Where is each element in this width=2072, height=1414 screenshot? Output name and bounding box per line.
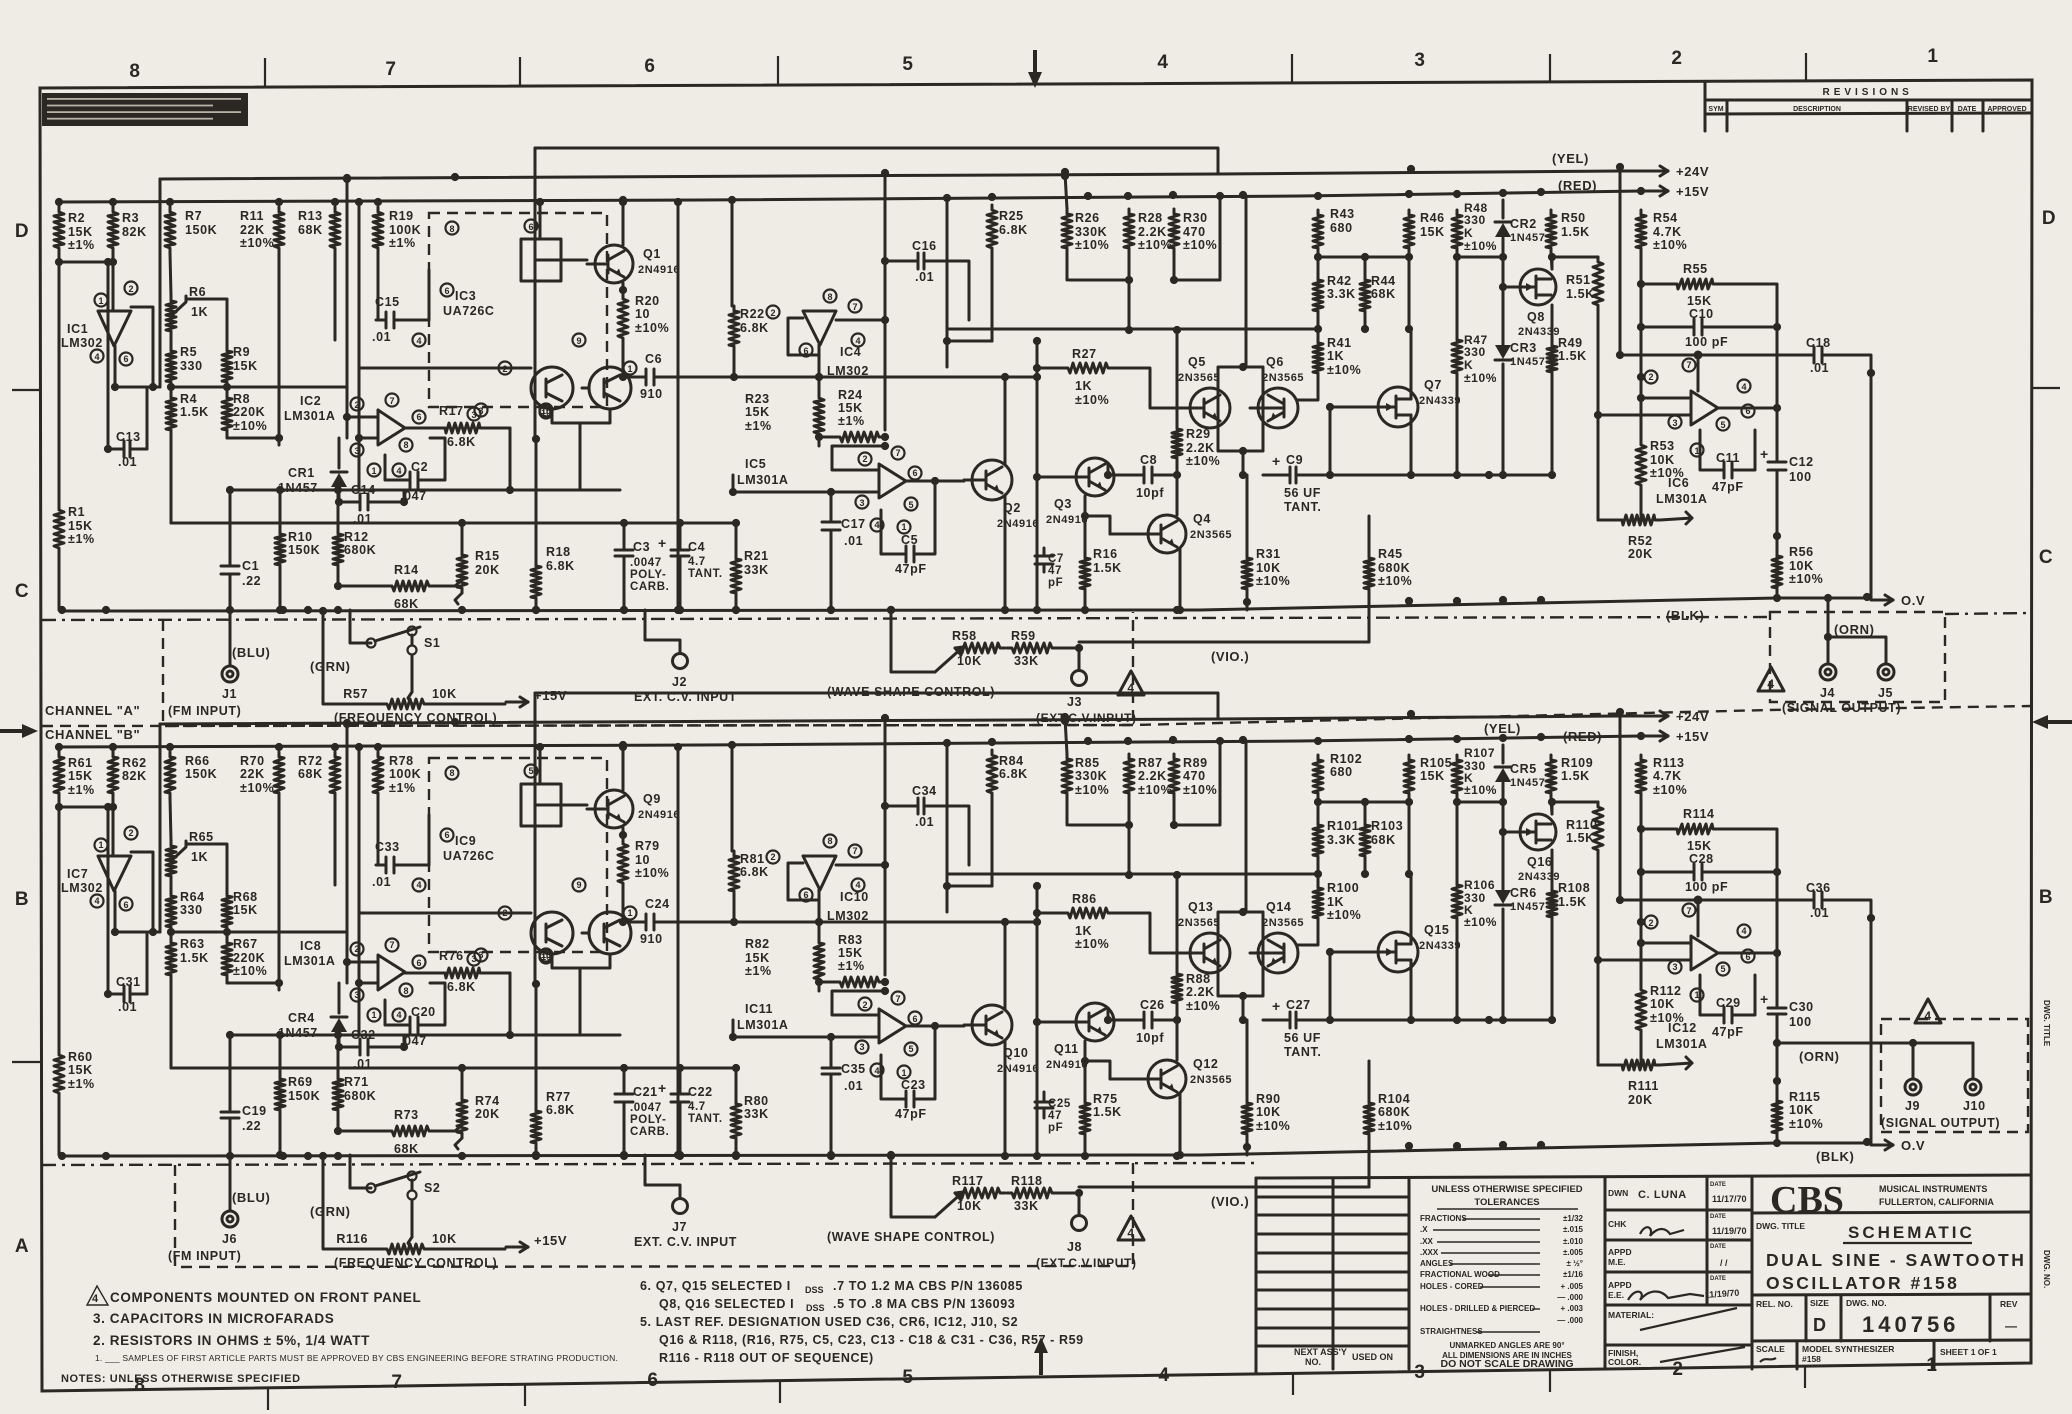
wire IC2 inputs xyxy=(347,416,378,419)
resistor R106 330K xyxy=(1452,880,1462,923)
capacitor C1 .22 xyxy=(229,558,232,566)
wire R4 R8 bottoms to lower bus xyxy=(170,435,173,523)
svg-text:2: 2 xyxy=(770,852,775,862)
dash-dot lower boundary xyxy=(42,617,1770,620)
svg-text:R111: R111 xyxy=(1628,1079,1659,1093)
C2 pin1 xyxy=(368,1009,381,1022)
resistor R55 15K xyxy=(1672,279,1718,289)
wire R6 top to R9 link xyxy=(186,299,227,346)
wire IC4 apex down to R23 xyxy=(818,890,821,938)
svg-text:C34: C34 xyxy=(912,784,937,798)
svg-text:R46: R46 xyxy=(1420,211,1445,225)
svg-text:5: 5 xyxy=(1720,420,1725,430)
svg-text:C1: C1 xyxy=(242,559,259,573)
svg-text:+15V: +15V xyxy=(1676,729,1709,744)
op-amp IC10 LM302 xyxy=(803,856,836,890)
svg-text:1.5K: 1.5K xyxy=(1093,1105,1122,1119)
wire Q1 collector to +15V rail xyxy=(622,745,625,790)
capacitor C32 .01 xyxy=(350,1046,360,1049)
wire R18 column xyxy=(535,439,538,561)
svg-text:R66: R66 xyxy=(185,754,210,768)
svg-text:R6: R6 xyxy=(189,285,206,299)
wire R45 to VIO wire xyxy=(1368,516,1371,553)
wire R21 column xyxy=(735,523,738,554)
svg-text:J1: J1 xyxy=(222,687,237,701)
svg-text:.X: .X xyxy=(1420,1225,1428,1234)
resistor R49 1.5K xyxy=(1547,341,1557,377)
svg-text:R107: R107 xyxy=(1464,746,1495,760)
svg-text:O.V: O.V xyxy=(1901,593,1925,608)
wire IC5 pin3 xyxy=(733,475,879,492)
resistor R23 15K xyxy=(814,393,824,439)
R58 wiper arrow xyxy=(935,1192,963,1217)
wire R43 bottom link R42 R44 xyxy=(1317,253,1320,275)
svg-text:140756: 140756 xyxy=(1862,1312,1959,1337)
capacitor C33 .01 xyxy=(376,864,386,867)
wire R15 top xyxy=(461,523,464,550)
resistor R90 10K xyxy=(1242,1098,1252,1139)
svg-text:B: B xyxy=(2039,887,2053,908)
svg-text:IC10: IC10 xyxy=(840,890,869,904)
wire C12 vertical xyxy=(1776,327,1779,453)
transistor Q16 2N4339 xyxy=(1520,814,1556,850)
diode CR2 1N457 xyxy=(1502,200,1505,218)
svg-text:2N3565: 2N3565 xyxy=(1262,372,1304,384)
svg-text:2N4339: 2N4339 xyxy=(1518,326,1560,338)
svg-text:6.8K: 6.8K xyxy=(999,223,1028,237)
svg-text:8: 8 xyxy=(403,986,408,996)
long vertical x732 R22 xyxy=(731,200,734,306)
dash-dot lower boundary xyxy=(42,1163,1256,1165)
svg-text:6: 6 xyxy=(444,286,449,296)
front panel flag output B xyxy=(1915,999,1941,1023)
svg-text:MODEL SYNTHESIZER: MODEL SYNTHESIZER xyxy=(1802,1344,1894,1354)
svg-text:C19: C19 xyxy=(242,1104,267,1118)
jack J10 xyxy=(1972,1043,1975,1077)
svg-text:C27: C27 xyxy=(1286,998,1311,1012)
svg-text:R81: R81 xyxy=(740,852,765,866)
resistor R82 15K xyxy=(814,938,824,984)
diode CR3 1N457 xyxy=(1502,330,1505,344)
svg-text:7: 7 xyxy=(389,940,394,950)
svg-text:220K: 220K xyxy=(233,405,265,419)
svg-text:R76: R76 xyxy=(439,949,464,963)
svg-text:1.5K: 1.5K xyxy=(1558,349,1587,363)
wire C2 loop xyxy=(385,1000,404,1025)
resistor R25 6.8K xyxy=(987,205,997,253)
capacitor C18 .01 xyxy=(1804,354,1814,357)
wire R53 to R52 xyxy=(1640,1035,1643,1065)
svg-text:±10%: ±10% xyxy=(1138,783,1172,797)
resistor R11 22K xyxy=(274,207,284,253)
svg-text:.01: .01 xyxy=(915,270,934,284)
svg-text:J9: J9 xyxy=(1905,1099,1920,1113)
svg-text:C24: C24 xyxy=(645,897,670,911)
wire IC2 inputs xyxy=(347,961,378,964)
svg-text:6.8K: 6.8K xyxy=(546,559,575,573)
resistor R24 15K xyxy=(835,432,884,442)
svg-text:5: 5 xyxy=(908,500,913,510)
wire R23 R24 junction xyxy=(818,984,821,991)
svg-text:R71: R71 xyxy=(344,1075,369,1089)
svg-text:15K: 15K xyxy=(838,946,863,960)
IC2 pins xyxy=(351,398,364,411)
svg-text:7: 7 xyxy=(852,846,857,856)
wire IC6 pin7 up xyxy=(1697,900,1700,936)
wire R2 R3 bottom link xyxy=(59,798,113,807)
svg-text:LM301A: LM301A xyxy=(284,954,336,968)
svg-text:1: 1 xyxy=(1927,46,1938,67)
resistor R68 15K xyxy=(222,891,232,932)
IC3 pin 8 xyxy=(446,767,459,780)
svg-text:R115: R115 xyxy=(1789,1090,1821,1104)
wire x1246 vertical xyxy=(1245,196,1248,367)
svg-text:6: 6 xyxy=(644,56,655,77)
svg-text:1N457: 1N457 xyxy=(278,481,318,495)
svg-text:POLY-: POLY- xyxy=(630,1114,666,1126)
wire R10 R12 bottoms to bus xyxy=(279,1115,282,1155)
svg-text:.01: .01 xyxy=(372,875,391,889)
svg-text:CR6: CR6 xyxy=(1510,886,1537,900)
svg-text:100: 100 xyxy=(1789,470,1812,484)
svg-text:1: 1 xyxy=(371,1010,376,1020)
svg-text:LM302: LM302 xyxy=(827,364,869,378)
svg-text:1N457: 1N457 xyxy=(1510,356,1545,368)
jack J2 ext cv xyxy=(673,654,688,669)
svg-text:47pF: 47pF xyxy=(1712,1025,1744,1039)
zone divider ticks right margin xyxy=(2032,387,2060,389)
svg-text:R57: R57 xyxy=(343,687,368,701)
wire Q1 base from x535 xyxy=(535,259,587,262)
svg-text:R7: R7 xyxy=(185,209,202,223)
svg-text:FRACTIONS: FRACTIONS xyxy=(1420,1214,1467,1223)
svg-text:C16: C16 xyxy=(912,239,937,253)
wire R31 column xyxy=(1246,475,1249,553)
svg-text:3.3K: 3.3K xyxy=(1327,833,1356,847)
svg-text:8: 8 xyxy=(449,224,454,234)
IC3 pin 6 xyxy=(525,220,538,233)
svg-text:J6: J6 xyxy=(222,1232,237,1246)
svg-text:15K: 15K xyxy=(745,951,770,965)
svg-text:±10%: ±10% xyxy=(1650,1011,1684,1025)
svg-text:C8: C8 xyxy=(1140,453,1157,467)
IC5 pins xyxy=(859,453,872,466)
wire IC4 output right xyxy=(836,864,885,867)
svg-text:2: 2 xyxy=(354,400,359,410)
svg-text:±10%: ±10% xyxy=(1378,1119,1412,1133)
svg-text:2N3565: 2N3565 xyxy=(1178,372,1220,384)
svg-text:±10%: ±10% xyxy=(1789,572,1823,586)
resistor R77 6.8K xyxy=(531,1106,541,1148)
svg-text:100K: 100K xyxy=(389,767,421,781)
jack J4 xyxy=(1820,664,1836,680)
long vertical x947 xyxy=(946,745,949,912)
svg-text:C31: C31 xyxy=(116,975,141,989)
svg-text:R101: R101 xyxy=(1327,819,1359,833)
wire R9-R8 mid junction xyxy=(226,932,229,938)
capacitor C15 .01 xyxy=(376,319,386,322)
wire R14 row xyxy=(338,585,387,588)
svg-text:8: 8 xyxy=(449,768,454,778)
wire left column vertical xyxy=(58,262,61,505)
wire IC1 feedback loop xyxy=(115,852,153,932)
svg-text:REL. NO.: REL. NO. xyxy=(1756,1299,1793,1309)
wire Q7 drain source xyxy=(1410,874,1413,944)
svg-text:LM301A: LM301A xyxy=(1656,492,1708,506)
svg-text:NEXT ASS'Y: NEXT ASS'Y xyxy=(1294,1347,1347,1357)
svg-text:1K: 1K xyxy=(191,850,208,864)
wire C18 right to x1871 xyxy=(1831,355,1871,373)
wire C16 branch xyxy=(885,260,908,263)
svg-text:C15: C15 xyxy=(375,295,400,309)
IC2 pins xyxy=(351,943,364,956)
svg-text:R1: R1 xyxy=(68,505,85,519)
potentiometer R57 10K frequency control xyxy=(382,699,429,709)
svg-text:±10%: ±10% xyxy=(1075,238,1109,252)
wire C12 vertical xyxy=(1776,872,1779,998)
resistor R8 220K xyxy=(222,393,232,435)
wire C16 branch xyxy=(885,805,908,808)
svg-text:1N457: 1N457 xyxy=(1510,901,1545,913)
svg-text:4: 4 xyxy=(855,336,860,346)
svg-text:REVISED BY: REVISED BY xyxy=(1908,106,1951,113)
wire x1871 down xyxy=(1870,918,1873,1143)
svg-text:2N4916: 2N4916 xyxy=(997,518,1039,530)
capacitor C11 47pF xyxy=(1714,469,1724,472)
long vertical x885 xyxy=(884,177,887,430)
IC4 pins xyxy=(824,835,837,848)
svg-text:#158: #158 xyxy=(1802,1354,1821,1364)
svg-text:(VIO.): (VIO.) xyxy=(1211,649,1249,664)
transistor Q2 2N4916 xyxy=(972,460,1012,500)
svg-text:(GRN): (GRN) xyxy=(310,1204,351,1219)
svg-text:R75: R75 xyxy=(1093,1092,1118,1106)
svg-text:TANT.: TANT. xyxy=(688,1113,723,1125)
svg-text:100: 100 xyxy=(1789,1015,1812,1029)
wire R28 down to R29 xyxy=(1128,280,1131,330)
svg-text:R116 - R118 OUT OF SEQUENCE): R116 - R118 OUT OF SEQUENCE) xyxy=(659,1351,874,1365)
svg-text:68K: 68K xyxy=(298,223,323,237)
svg-text:330: 330 xyxy=(1464,213,1486,227)
svg-text:R106: R106 xyxy=(1464,878,1495,892)
long vertical buses x347 x359 xyxy=(346,179,349,438)
wire R23 R24 junction xyxy=(818,439,821,446)
long vertical x947 xyxy=(946,200,949,367)
svg-text:R5: R5 xyxy=(180,345,197,359)
svg-text:6: 6 xyxy=(912,1014,917,1024)
resistor R78 100K xyxy=(373,752,383,798)
wire mid horizontal to IC2 xyxy=(171,386,347,389)
wire R29 bottom to Q4 collector xyxy=(1176,463,1179,515)
svg-text:2.2K: 2.2K xyxy=(1186,985,1215,999)
svg-text:J8: J8 xyxy=(1067,1240,1082,1254)
svg-text:470: 470 xyxy=(1183,769,1206,783)
svg-text:A: A xyxy=(15,1236,29,1257)
capacitor C29 47pF xyxy=(1714,1014,1724,1017)
svg-text:MATERIAL:: MATERIAL: xyxy=(1608,1310,1654,1320)
svg-text:22K: 22K xyxy=(240,767,265,781)
svg-text:/ /: / / xyxy=(1720,1258,1728,1268)
R58 wiper arrow xyxy=(935,647,963,672)
resistor R51 1.5K xyxy=(1593,257,1603,310)
svg-text:47pF: 47pF xyxy=(895,562,927,576)
wire C6 line to IC4 xyxy=(663,921,819,924)
wire R48 CR2 bottoms xyxy=(1456,798,1459,813)
svg-text:R85: R85 xyxy=(1075,756,1100,770)
wire C2 loop xyxy=(385,455,404,480)
svg-text:±1%: ±1% xyxy=(838,959,865,973)
IC4 feedback rect xyxy=(788,863,819,900)
svg-text:±10%: ±10% xyxy=(240,781,274,795)
wire C1 vertical to J1 xyxy=(229,1035,232,1102)
wire J2 stub xyxy=(645,610,680,653)
resistor R14 68K xyxy=(387,581,434,591)
svg-text:STRAIGHTNESS: STRAIGHTNESS xyxy=(1420,1327,1483,1336)
svg-text:R8: R8 xyxy=(233,392,250,406)
svg-text:R44: R44 xyxy=(1371,274,1396,288)
svg-text:C21: C21 xyxy=(633,1085,658,1099)
svg-text:COLOR.: COLOR. xyxy=(1608,1357,1641,1367)
wire R51 bottom to IC6 pin3 row and R52 xyxy=(1597,855,1600,1065)
svg-text:2: 2 xyxy=(128,828,133,838)
dashed front panel box xyxy=(175,1157,1133,1267)
wire R51 bottom to IC6 pin3 row and R52 xyxy=(1597,310,1600,520)
svg-text:SCHEMATIC: SCHEMATIC xyxy=(1848,1223,1975,1242)
svg-text:R102: R102 xyxy=(1330,752,1362,766)
svg-text:(GRN): (GRN) xyxy=(310,659,351,674)
svg-text:R31: R31 xyxy=(1256,547,1281,561)
capacitor C10 100pF xyxy=(1684,326,1694,329)
wire y490 horizontal xyxy=(230,489,359,492)
resistor R1 15K xyxy=(54,505,64,553)
resistor R26 330K xyxy=(1062,209,1072,253)
svg-text:1: 1 xyxy=(98,840,103,850)
R57 wiper xyxy=(411,655,414,692)
svg-text:1K: 1K xyxy=(191,305,208,319)
svg-text:2: 2 xyxy=(354,944,359,954)
svg-text:R72: R72 xyxy=(298,754,323,768)
svg-text:.01: .01 xyxy=(353,512,372,526)
svg-text:±1/16: ±1/16 xyxy=(1563,1270,1584,1279)
svg-text:±10%: ±10% xyxy=(1464,783,1497,797)
resistor R79 10 xyxy=(618,839,628,888)
R17 pins xyxy=(475,949,488,962)
capacitor C3 .0047 polycarb xyxy=(623,540,626,550)
wire R2 R3 top stubs xyxy=(58,747,61,752)
resistor R31 10K xyxy=(1242,553,1252,594)
potentiometer R116 10K frequency control xyxy=(382,1244,429,1254)
resistor R47 330K xyxy=(1452,335,1462,378)
svg-text:C23: C23 xyxy=(901,1078,926,1092)
wire C3 C4 links xyxy=(623,1068,626,1085)
svg-text:DATE: DATE xyxy=(1958,106,1977,113)
svg-text:LM302: LM302 xyxy=(827,909,869,923)
wire y490 to pair xyxy=(359,1034,620,1037)
wire R26 R28 R30 bottoms xyxy=(1066,253,1069,280)
svg-text:2.2K: 2.2K xyxy=(1138,769,1167,783)
svg-text:2.2K: 2.2K xyxy=(1186,441,1215,455)
capacitor C7 47pF xyxy=(1043,548,1046,556)
potentiometer R52 20K xyxy=(1617,515,1660,525)
svg-text:1.5K: 1.5K xyxy=(1561,225,1590,239)
svg-text:R58: R58 xyxy=(952,629,977,643)
resistor R113 4.7K xyxy=(1636,755,1646,798)
svg-text:Q12: Q12 xyxy=(1193,1057,1218,1071)
svg-text:DWN: DWN xyxy=(1608,1188,1628,1198)
wire R11 R13 verticals down xyxy=(278,798,281,983)
svg-text:D: D xyxy=(15,221,29,242)
svg-text:LM302: LM302 xyxy=(61,881,103,895)
svg-text:10pf: 10pf xyxy=(1136,1031,1164,1045)
svg-text:DSS: DSS xyxy=(806,1303,825,1313)
svg-text:SYM: SYM xyxy=(1708,106,1723,113)
svg-text:(BLU): (BLU) xyxy=(232,645,270,660)
svg-text:R15: R15 xyxy=(475,549,500,563)
svg-text:APPD: APPD xyxy=(1608,1280,1632,1290)
svg-text:10K: 10K xyxy=(1789,559,1814,573)
wire y355 row C18 xyxy=(1620,899,1806,902)
svg-text:C29: C29 xyxy=(1716,996,1741,1010)
svg-text:330K: 330K xyxy=(1075,225,1107,239)
wire +24V upper jog rail (channel A) xyxy=(535,148,1218,174)
wire R19 bottom to C15 xyxy=(377,798,380,865)
svg-text:UA726C: UA726C xyxy=(443,304,495,318)
svg-text:1.5K: 1.5K xyxy=(1566,287,1595,301)
resistor R89 470 xyxy=(1169,754,1179,798)
svg-text:C33: C33 xyxy=(375,840,400,854)
resistor R30 470 xyxy=(1169,209,1179,253)
svg-text:DWG. NO.: DWG. NO. xyxy=(1846,1298,1887,1308)
svg-text:4: 4 xyxy=(1158,1365,1169,1386)
svg-text:100 pF: 100 pF xyxy=(1685,880,1728,894)
long vertical x678 xyxy=(677,745,680,1155)
svg-text:1.5K: 1.5K xyxy=(180,951,209,965)
wire IC3 top to +24V jog xyxy=(539,202,542,239)
jack J3 ext cv input xyxy=(1072,671,1087,686)
svg-text:DSS: DSS xyxy=(805,1285,824,1295)
svg-text:220K: 220K xyxy=(233,951,265,965)
svg-text:5: 5 xyxy=(902,1367,913,1388)
svg-text:5: 5 xyxy=(902,54,913,75)
svg-text:4: 4 xyxy=(874,1066,879,1076)
capacitor C17 .01 xyxy=(830,514,833,522)
svg-text:C18: C18 xyxy=(1806,336,1831,350)
wire +24V upper jog rail (channel B) xyxy=(535,693,1218,719)
svg-text:LM301A: LM301A xyxy=(284,409,336,423)
wire IC6 output xyxy=(1717,407,1777,410)
svg-text:(ORN): (ORN) xyxy=(1799,1049,1840,1064)
dashed signal output box xyxy=(1770,612,1945,702)
svg-text:±10%: ±10% xyxy=(1183,238,1217,252)
wire C15 to IC3 xyxy=(403,270,429,320)
svg-text:150K: 150K xyxy=(185,223,217,237)
svg-text:R21: R21 xyxy=(744,549,769,563)
svg-text:R60: R60 xyxy=(68,1050,93,1064)
op-amp IC7 LM302 xyxy=(98,856,131,891)
svg-text:R109: R109 xyxy=(1561,756,1593,770)
svg-text:9: 9 xyxy=(576,336,581,346)
svg-text:Q4: Q4 xyxy=(1193,512,1211,526)
wire y523 long horizontal xyxy=(171,522,462,525)
svg-text:.01: .01 xyxy=(118,455,137,469)
resistor R20 10 xyxy=(618,294,628,343)
IC5 input loop xyxy=(832,991,885,1015)
svg-text:47: 47 xyxy=(1048,1110,1062,1122)
svg-text:APPROVED: APPROVED xyxy=(1987,106,2026,113)
wire switch feed xyxy=(411,635,414,645)
svg-text:7: 7 xyxy=(1686,906,1691,916)
svg-text:6.8K: 6.8K xyxy=(447,435,476,449)
